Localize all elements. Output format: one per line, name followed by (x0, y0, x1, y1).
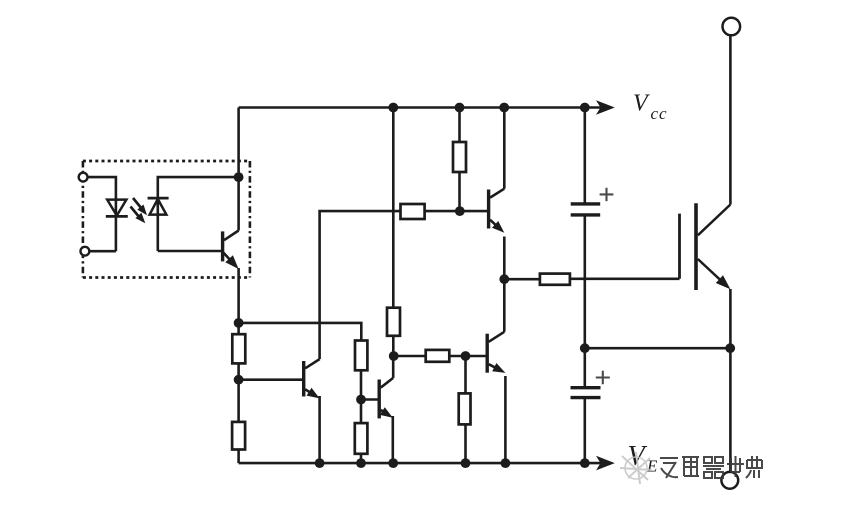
terminal input bottom (81, 247, 90, 256)
wire R5 to T4 base (449, 355, 486, 358)
Vcc rail arrowhead (596, 100, 615, 115)
watermark text 2 (682, 457, 699, 476)
wire C2 from mid node (583, 348, 586, 388)
wire C1 from top rail (583, 108, 586, 204)
IGBT Q5 collector diagonal (698, 205, 731, 236)
svg-text:cc: cc (651, 104, 668, 123)
watermark text 1 (660, 458, 678, 478)
node dot R4 bottom (389, 351, 399, 361)
wire VEE bottom rail (239, 462, 601, 465)
watermark text 5 (746, 456, 762, 478)
svg-text:V: V (633, 91, 650, 117)
wire output node to R7 (504, 278, 540, 281)
node dot bottom rail x=393 (388, 458, 398, 468)
wire cathode to bottom terminal (89, 250, 116, 253)
resistor R11 (355, 423, 368, 454)
plus sign C1 (600, 188, 614, 201)
resistor R8 (232, 334, 245, 363)
wire photodiode cathode to collector rail (158, 177, 239, 251)
node dot divider top (234, 318, 244, 328)
wire T1 emitter to bottom rail (318, 396, 321, 463)
resistor R4 (387, 308, 400, 336)
node dot T3 base (455, 206, 465, 216)
VEE rail arrowhead (596, 456, 615, 471)
node dot T2 base (356, 395, 366, 405)
LED D1 (107, 200, 126, 216)
light arrow lower (131, 207, 141, 219)
terminal collector top (723, 18, 741, 36)
watermark text 4 (727, 456, 744, 477)
terminal emitter bottom (721, 472, 738, 489)
capacitor C1 (571, 202, 601, 205)
wire opto collector (237, 177, 240, 230)
wire photodiode anode to base (158, 250, 221, 253)
wire mid line (585, 347, 730, 350)
IGBT Q5 body bar (694, 203, 698, 290)
resistor R7 (540, 274, 570, 285)
node dot divider mid (234, 375, 244, 385)
wire R2 to T3 base node (458, 172, 461, 211)
node dot top rail x=393 (388, 103, 398, 113)
light arrow upper (133, 198, 142, 209)
resistor R5 (426, 350, 450, 362)
node dot bottom rail x=585 (580, 458, 590, 468)
resistor R2 (453, 142, 466, 172)
capacitor C2 (571, 386, 601, 389)
watermark text 3 (703, 457, 724, 478)
wire (237, 323, 240, 334)
IGBT Q5 gate bar (678, 214, 681, 279)
node dot bottom rail x=320 (315, 458, 325, 468)
wire R6 to bottom rail (464, 424, 467, 463)
wire IGBT emitter down (729, 289, 732, 472)
node dot output (499, 274, 509, 284)
wire (360, 370, 363, 423)
wire C1 to mid node (583, 215, 586, 348)
transistor T3 upper output (487, 190, 490, 229)
wire from top rail down to optocoupler collector (237, 108, 240, 178)
wire R4 to node (392, 336, 395, 356)
transistor T4 lower output (486, 334, 489, 373)
wire T2 base (361, 398, 378, 401)
wire (360, 454, 363, 463)
node dot top rail x=504 (499, 103, 509, 113)
resistor R10 (355, 341, 367, 371)
node dot bottom rail x=505 (501, 458, 511, 468)
resistor R6 (459, 393, 471, 424)
wire T1 collector up and to base resistor (320, 211, 401, 359)
wire T2 collector up to node (392, 356, 395, 378)
phototransistor Q1 (221, 231, 224, 261)
wire R3 to T3 base (425, 210, 487, 213)
node dot mid line right (725, 343, 735, 353)
wire node down to R6 (464, 356, 467, 393)
terminal input top (79, 173, 88, 182)
optocoupler U1 box (83, 160, 250, 163)
wire opto emitter down (237, 268, 240, 323)
node dot bottom rail x=361 (356, 458, 366, 468)
node dot top rail x=585 (580, 103, 590, 113)
wire (237, 363, 240, 422)
IGBT Q5 emitter diagonal (698, 259, 725, 284)
wire IGBT collector up (729, 35, 732, 204)
wire R2 from top rail (458, 108, 461, 143)
wire Vcc drop x=393 (392, 108, 395, 308)
wire C2 to bottom rail (583, 398, 586, 464)
wire T1 base from divider (239, 378, 302, 381)
wire divider to middle stack (239, 323, 362, 341)
resistor R3 (401, 204, 425, 219)
wire T3 collector to top rail (503, 108, 506, 189)
wire to bottom rail (237, 450, 240, 464)
transistor T1 (302, 361, 305, 397)
wire T2 emitter to bottom rail (391, 416, 394, 463)
node dot bottom rail x=465 (461, 458, 471, 468)
node dot top rail x=459 (455, 103, 465, 113)
wire T3 emitter to output node (503, 237, 506, 280)
node dot opto collector (234, 172, 244, 182)
node dot T4 base (461, 351, 471, 361)
transistor T2 (378, 380, 381, 419)
wire node to R5 (394, 355, 426, 358)
resistor R9 (232, 422, 245, 450)
photodiode D2 (148, 197, 169, 200)
wire Vcc top rail (239, 106, 601, 109)
wire R7 to IGBT gate (570, 277, 680, 280)
wire T4 emitter to bottom rail (504, 376, 507, 463)
plus sign C2 (596, 371, 610, 384)
wire output node down to T4 collector (503, 279, 506, 332)
watermark logo blob (620, 452, 652, 484)
node dot mid line left (580, 343, 590, 353)
wire anode input (88, 177, 116, 251)
